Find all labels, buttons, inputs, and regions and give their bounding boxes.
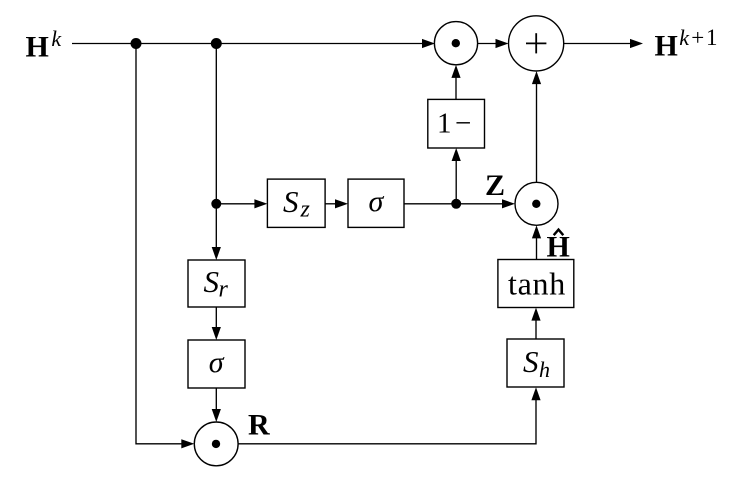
svg-text:tanh: tanh (508, 265, 566, 301)
circle U2 center dot (532, 200, 540, 208)
wire Sz to sigma1 (325, 203, 336, 205)
svg-text:k: k (679, 25, 690, 50)
arrowhead into box sigma2 top (212, 327, 221, 340)
wire circle U4 to H^k+1 (564, 43, 632, 45)
arrowhead into box Sh bottom (531, 387, 540, 400)
svg-text:R: R (248, 408, 270, 441)
arrowhead into circle U2 bottom (532, 225, 541, 238)
svg-text:Z: Z (485, 169, 505, 202)
svg-text:z: z (300, 197, 311, 223)
svg-text:H: H (655, 29, 678, 62)
arrowhead into box 1minus bottom (452, 148, 461, 161)
box Sr (188, 260, 245, 307)
node A junction dot (131, 38, 142, 49)
arrowhead into box sigma1 left (335, 199, 348, 208)
label H hat circumflex (554, 230, 564, 236)
circle U3 center dot (212, 440, 220, 448)
svg-text:+1: +1 (691, 25, 719, 50)
svg-text:h: h (539, 357, 550, 382)
arrowhead into circle U4 left (496, 39, 509, 48)
box Sh (507, 339, 564, 387)
wire circle U1 to circle U4 (478, 43, 497, 45)
circle U2 elementwise product (515, 182, 558, 225)
wire node C to Sz (216, 203, 255, 205)
wire node D up to box 1minus (455, 160, 457, 204)
wire sigma1 to node D and circle U2 (404, 203, 504, 205)
wire bottom from circle U3 to Sh (238, 399, 536, 444)
wire Sh up to tanh (535, 319, 537, 339)
svg-text:1−: 1− (437, 108, 475, 140)
wire top H^k to circle U1 (72, 43, 423, 45)
circle U3 elementwise product (194, 422, 238, 466)
svg-text:S: S (523, 344, 539, 379)
node D junction dot (451, 199, 461, 209)
circle U4 sum (508, 16, 563, 71)
arrowhead into circle U4 bottom (532, 71, 541, 84)
box Sz (267, 179, 325, 227)
wire tanh up to circle U2 (536, 237, 538, 260)
arrowhead into box tanh bottom (531, 308, 540, 321)
wire box 1minus up to circle U1 (455, 77, 457, 100)
circle U1 center dot (452, 39, 460, 47)
box 1minus (428, 99, 485, 148)
node C junction dot (211, 199, 221, 209)
arrowhead into box Sr top (212, 247, 221, 260)
svg-text:S: S (204, 264, 220, 299)
box tanh (498, 260, 574, 308)
wire Sr down to sigma2 (215, 307, 217, 329)
node B junction dot (211, 38, 222, 49)
wire sigma2 down to circle U3 (215, 388, 217, 411)
arrowhead into circle U3 left (181, 439, 194, 448)
arrowhead into circle U2 left (502, 199, 515, 208)
svg-text:S: S (283, 184, 299, 219)
svg-text:σ: σ (209, 346, 225, 379)
arrowhead into box Sz left (254, 199, 267, 208)
arrowhead into label H^k+1 (630, 39, 643, 48)
svg-text:H: H (547, 231, 570, 264)
arrowhead into circle U3 top (212, 409, 221, 422)
circle U4 plus sign (526, 33, 546, 53)
box sigma1 (348, 179, 404, 227)
arrowhead into circle U1 bottom (451, 65, 460, 78)
svg-text:k: k (51, 26, 62, 51)
circle U1 elementwise product (434, 22, 477, 65)
svg-text:H: H (26, 31, 49, 64)
wire circle U2 up to circle U4 (536, 83, 538, 183)
wire second branch down from node B through node C to Sr (215, 44, 217, 249)
svg-text:r: r (219, 277, 229, 303)
box sigma2 (188, 340, 245, 388)
wire left branch down from node A to bottom and into circle U3 (136, 44, 182, 444)
svg-text:σ: σ (369, 185, 385, 218)
arrowhead into circle U1 left (422, 39, 435, 48)
